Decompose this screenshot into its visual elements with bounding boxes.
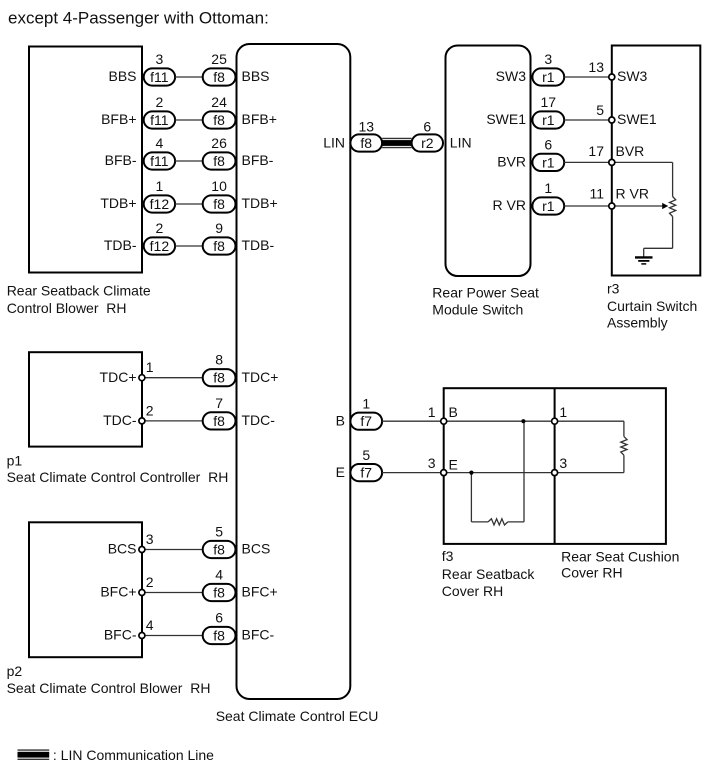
svg-text:f8: f8 bbox=[360, 135, 372, 151]
svg-text:Assembly: Assembly bbox=[607, 314, 668, 330]
svg-text:r1: r1 bbox=[542, 198, 555, 214]
svg-text:f8: f8 bbox=[213, 153, 225, 169]
svg-text:R VR: R VR bbox=[616, 186, 649, 202]
svg-text:E: E bbox=[449, 456, 458, 472]
svg-text:10: 10 bbox=[211, 178, 227, 194]
svg-text:TDC-: TDC- bbox=[103, 412, 137, 428]
svg-text:BFC+: BFC+ bbox=[100, 584, 136, 600]
svg-text:Module Switch: Module Switch bbox=[432, 302, 523, 318]
svg-text:p2: p2 bbox=[7, 663, 23, 679]
svg-text:LIN: LIN bbox=[450, 134, 472, 150]
svg-text:26: 26 bbox=[211, 135, 227, 151]
svg-text:TDC+: TDC+ bbox=[100, 369, 137, 385]
svg-text:TDB-: TDB- bbox=[242, 237, 275, 253]
svg-text:6: 6 bbox=[423, 118, 431, 134]
svg-text:f8: f8 bbox=[213, 196, 225, 212]
svg-text:SW3: SW3 bbox=[496, 68, 527, 84]
svg-text:f8: f8 bbox=[213, 413, 225, 429]
svg-text:1: 1 bbox=[362, 396, 370, 412]
svg-text:r3: r3 bbox=[607, 280, 620, 296]
svg-text:BFB+: BFB+ bbox=[101, 111, 136, 127]
svg-text:Curtain Switch: Curtain Switch bbox=[607, 298, 697, 314]
svg-text:3: 3 bbox=[559, 455, 567, 471]
svg-text:Seat Climate Control Blower R: Seat Climate Control Blower RH bbox=[7, 680, 211, 696]
svg-text:r1: r1 bbox=[542, 154, 555, 170]
svg-text:f7: f7 bbox=[360, 413, 372, 429]
svg-text:BBS: BBS bbox=[242, 68, 270, 84]
svg-text:B: B bbox=[336, 412, 345, 428]
svg-text:Cover RH: Cover RH bbox=[561, 565, 622, 581]
svg-text:Control Blower RH: Control Blower RH bbox=[7, 300, 127, 316]
svg-text:1: 1 bbox=[559, 404, 567, 420]
svg-text:7: 7 bbox=[215, 395, 223, 411]
svg-text:4: 4 bbox=[156, 135, 164, 151]
svg-text:f8: f8 bbox=[213, 238, 225, 254]
svg-text:SW3: SW3 bbox=[617, 68, 648, 84]
svg-text:BFB-: BFB- bbox=[242, 152, 274, 168]
svg-text:f11: f11 bbox=[150, 153, 169, 169]
svg-text:f8: f8 bbox=[213, 69, 225, 85]
svg-text:6: 6 bbox=[215, 610, 223, 626]
svg-text:BVR: BVR bbox=[616, 143, 645, 159]
svg-text:3: 3 bbox=[156, 51, 164, 67]
svg-text:Seat Climate Control ECU: Seat Climate Control ECU bbox=[216, 708, 379, 724]
svg-text:Rear Seatback: Rear Seatback bbox=[442, 566, 536, 582]
svg-text:1: 1 bbox=[544, 180, 552, 196]
svg-text:Seat Climate Control Controlle: Seat Climate Control Controller RH bbox=[7, 469, 229, 485]
svg-text:13: 13 bbox=[359, 118, 375, 134]
svg-text:TDB+: TDB+ bbox=[242, 195, 278, 211]
svg-text:except 4-Passenger with Ottoma: except 4-Passenger with Ottoman: bbox=[8, 8, 269, 27]
svg-text:17: 17 bbox=[588, 143, 604, 159]
svg-text:2: 2 bbox=[146, 402, 154, 418]
svg-text:2: 2 bbox=[156, 94, 164, 110]
svg-text:11: 11 bbox=[589, 186, 604, 202]
svg-text:3: 3 bbox=[544, 51, 552, 67]
svg-text:BFB+: BFB+ bbox=[242, 111, 277, 127]
svg-text:BFB-: BFB- bbox=[105, 152, 137, 168]
svg-text:13: 13 bbox=[588, 59, 604, 75]
svg-text:f11: f11 bbox=[150, 112, 169, 128]
svg-text:f11: f11 bbox=[150, 69, 169, 85]
svg-text:SWE1: SWE1 bbox=[617, 111, 657, 127]
svg-text:R VR: R VR bbox=[493, 197, 526, 213]
svg-text:4: 4 bbox=[146, 617, 154, 633]
svg-text:8: 8 bbox=[215, 352, 223, 368]
svg-text:Rear Seatback Climate: Rear Seatback Climate bbox=[7, 282, 151, 298]
svg-text:f8: f8 bbox=[213, 370, 225, 386]
svg-text:TDC+: TDC+ bbox=[242, 369, 279, 385]
svg-text:BBS: BBS bbox=[108, 68, 136, 84]
svg-text:1: 1 bbox=[156, 178, 164, 194]
svg-text:f12: f12 bbox=[150, 238, 170, 254]
svg-text:BVR: BVR bbox=[497, 154, 526, 170]
svg-text:6: 6 bbox=[544, 136, 552, 152]
svg-text:f8: f8 bbox=[213, 541, 225, 557]
svg-text:5: 5 bbox=[362, 447, 370, 463]
svg-text:f7: f7 bbox=[360, 465, 372, 481]
svg-text:r2: r2 bbox=[421, 135, 434, 151]
svg-text:r1: r1 bbox=[542, 112, 555, 128]
svg-text:Rear Power Seat: Rear Power Seat bbox=[432, 285, 539, 301]
svg-text:SWE1: SWE1 bbox=[486, 111, 526, 127]
svg-text:f8: f8 bbox=[213, 627, 225, 643]
svg-text:f3: f3 bbox=[442, 548, 454, 564]
svg-text:1: 1 bbox=[146, 359, 154, 375]
svg-text:BCS: BCS bbox=[242, 541, 271, 557]
svg-text:TDB+: TDB+ bbox=[100, 195, 136, 211]
svg-text:TDB-: TDB- bbox=[104, 237, 137, 253]
svg-text:BFC-: BFC- bbox=[242, 627, 275, 643]
svg-text:E: E bbox=[336, 464, 345, 480]
svg-text:p1: p1 bbox=[7, 453, 23, 469]
svg-text:B: B bbox=[449, 404, 458, 420]
svg-text:9: 9 bbox=[215, 220, 223, 236]
svg-text:TDC-: TDC- bbox=[242, 412, 276, 428]
svg-text:f8: f8 bbox=[213, 112, 225, 128]
svg-text:17: 17 bbox=[541, 94, 557, 110]
svg-text:BFC-: BFC- bbox=[104, 627, 137, 643]
svg-text:f12: f12 bbox=[150, 196, 170, 212]
svg-text:BCS: BCS bbox=[108, 541, 137, 557]
svg-text:2: 2 bbox=[146, 574, 154, 590]
svg-text:25: 25 bbox=[211, 51, 227, 67]
svg-text:r1: r1 bbox=[542, 69, 555, 85]
svg-text:LIN: LIN bbox=[323, 134, 345, 150]
svg-text:: LIN Communication Line: : LIN Communication Line bbox=[53, 747, 214, 763]
svg-text:5: 5 bbox=[215, 524, 223, 540]
svg-text:Cover RH: Cover RH bbox=[442, 583, 503, 599]
svg-text:3: 3 bbox=[428, 455, 436, 471]
svg-text:Rear Seat Cushion: Rear Seat Cushion bbox=[561, 548, 679, 564]
svg-text:f8: f8 bbox=[213, 584, 225, 600]
svg-text:24: 24 bbox=[211, 94, 227, 110]
svg-text:1: 1 bbox=[428, 404, 436, 420]
svg-text:4: 4 bbox=[215, 567, 223, 583]
svg-text:3: 3 bbox=[146, 531, 154, 547]
svg-text:BFC+: BFC+ bbox=[242, 584, 278, 600]
svg-text:5: 5 bbox=[596, 102, 604, 118]
svg-text:2: 2 bbox=[156, 220, 164, 236]
